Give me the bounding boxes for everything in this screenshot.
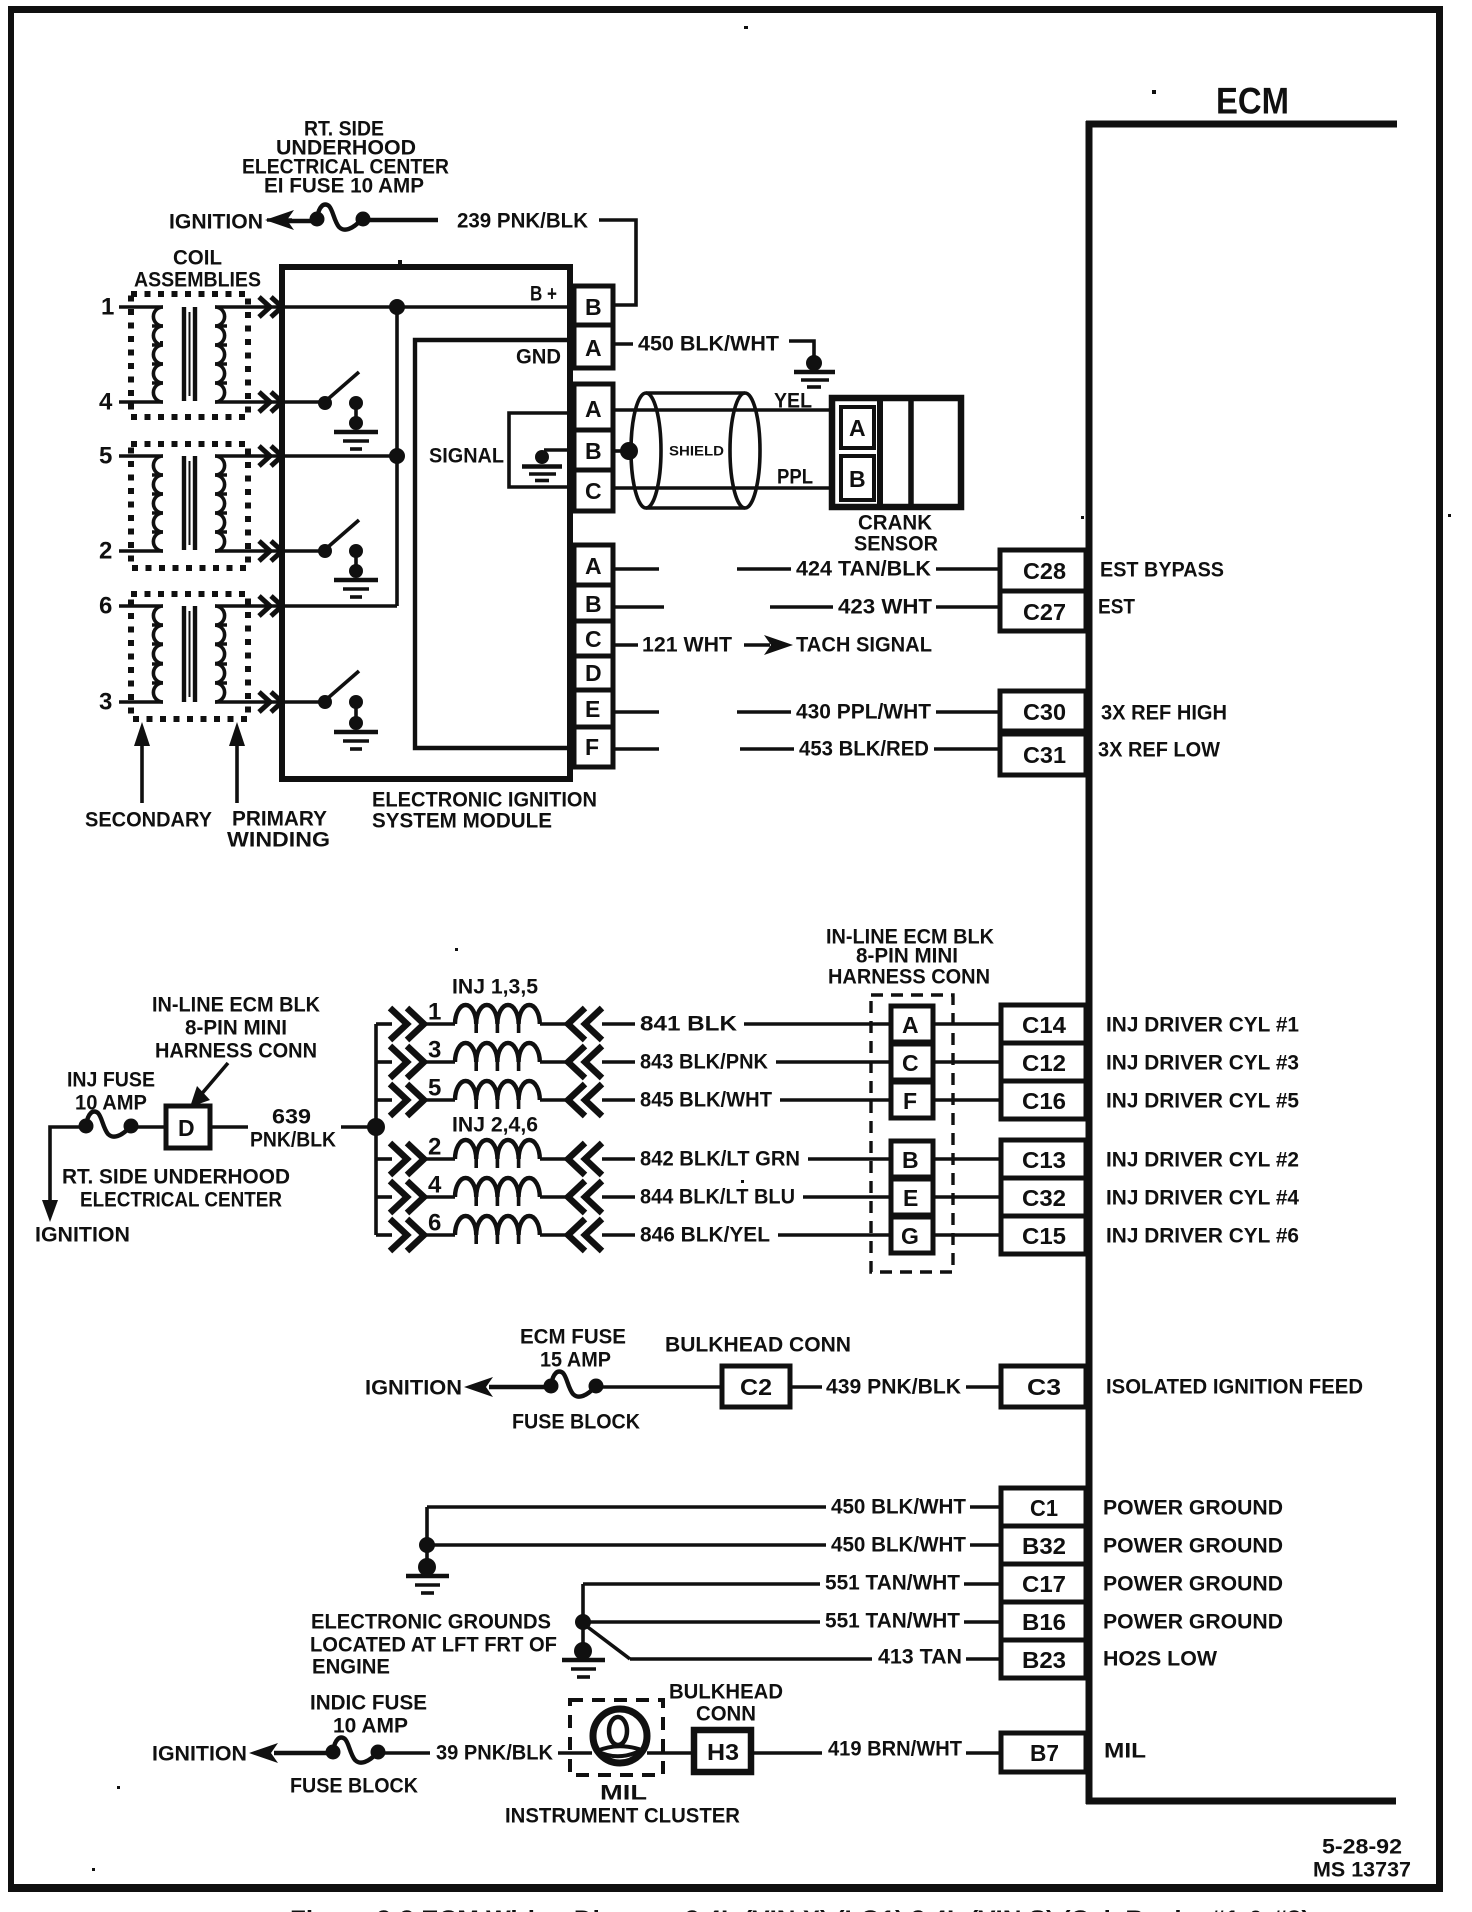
coil assembly 5-2 dotted box — [131, 444, 248, 568]
svg-text:MIL: MIL — [600, 1782, 647, 1805]
svg-text:B: B — [585, 294, 602, 320]
transformer T2 (coils 5,2) — [152, 456, 284, 551]
svg-text:439 PNK/BLK: 439 PNK/BLK — [826, 1376, 961, 1399]
pin C12 — [1001, 1043, 1086, 1081]
chevron into module row 2 — [259, 541, 282, 561]
wire — [288, 219, 318, 223]
svg-text:YEL: YEL — [774, 390, 812, 413]
svg-text:A: A — [585, 396, 602, 422]
chevron into module row 3 — [259, 692, 282, 712]
arrow to IGNITION — [265, 210, 294, 230]
svg-text:HO2S LOW: HO2S LOW — [1103, 1648, 1217, 1671]
wire 439 PNK/BLK — [790, 1376, 1001, 1399]
svg-text:E: E — [903, 1185, 918, 1211]
svg-text:D: D — [178, 1115, 195, 1141]
MIL lamp dashed box — [570, 1700, 663, 1775]
pin C14 — [1001, 1005, 1086, 1043]
svg-text:430 PPL/WHT: 430 PPL/WHT — [796, 701, 931, 724]
svg-text:G: G — [901, 1223, 919, 1249]
svg-text:842 BLK/LT GRN: 842 BLK/LT GRN — [640, 1148, 800, 1171]
junction node row 5 — [389, 448, 405, 464]
pin B32 — [1001, 1526, 1086, 1564]
harness pin G — [891, 1217, 1001, 1253]
svg-text:IGNITION: IGNITION — [365, 1377, 462, 1400]
fuse INDIC FUSE 10 AMP — [274, 1738, 430, 1763]
junction node on B+ — [389, 299, 405, 315]
svg-text:6: 6 — [428, 1210, 441, 1237]
label ELECTRONIC GROUNDS LOCATED AT LFT FRT OF ENGINE — [310, 1611, 557, 1679]
svg-text:E: E — [585, 696, 600, 722]
svg-text:121 WHT: 121 WHT — [642, 634, 732, 657]
svg-text:GND: GND — [516, 346, 561, 369]
svg-text:INJ DRIVER CYL #3: INJ DRIVER CYL #3 — [1106, 1052, 1299, 1075]
pin group B/A top — [574, 286, 613, 368]
coil assembly 1-4 dotted box — [131, 294, 248, 417]
svg-text:HARNESS CONN: HARNESS CONN — [828, 966, 990, 989]
svg-text:B: B — [902, 1147, 919, 1173]
wire 551 TAN/WHT to B16 — [583, 1610, 1001, 1633]
wire 453 BLK/RED (3X REF LOW) — [613, 738, 1001, 761]
arrow to SECONDARY winding — [134, 722, 150, 803]
svg-text:C1: C1 — [1030, 1495, 1058, 1521]
inner ground box — [509, 413, 568, 487]
svg-text:C: C — [902, 1050, 919, 1076]
wire 121 WHT (TACH) — [613, 634, 793, 657]
svg-text:POWER GROUND: POWER GROUND — [1103, 1497, 1283, 1520]
wire 551 TAN/WHT to C17 — [583, 1572, 1001, 1595]
svg-text:A: A — [585, 553, 602, 579]
injector feed bus — [367, 1024, 385, 1235]
svg-text:CONN: CONN — [696, 1703, 756, 1726]
svg-text:C31: C31 — [1023, 742, 1066, 768]
svg-text:C15: C15 — [1022, 1223, 1066, 1249]
svg-text:POWER GROUND: POWER GROUND — [1103, 1573, 1283, 1596]
svg-text:ASSEMBLIES: ASSEMBLIES — [134, 269, 261, 292]
svg-text:C32: C32 — [1022, 1185, 1066, 1211]
svg-text:SECONDARY: SECONDARY — [85, 809, 212, 832]
wire coil 4 — [119, 400, 163, 404]
svg-text:INJ DRIVER CYL #6: INJ DRIVER CYL #6 — [1106, 1225, 1299, 1248]
svg-text:POWER GROUND: POWER GROUND — [1103, 1611, 1283, 1634]
ground G1 (450 BLK/WHT) — [789, 341, 835, 387]
switch Q2 (coil 2 primary) — [284, 520, 378, 597]
connector D — [166, 1106, 210, 1148]
wire elbow to pin B — [599, 220, 636, 305]
label BULKHEAD CONN (MIL) — [669, 1681, 783, 1726]
coil assembly 6-3 dotted box — [131, 594, 248, 719]
svg-text:EI FUSE 10 AMP: EI FUSE 10 AMP — [264, 175, 424, 198]
svg-text:INJ FUSE: INJ FUSE — [67, 1069, 155, 1092]
svg-text:15 AMP: 15 AMP — [540, 1349, 611, 1372]
ground node inside signal box — [522, 450, 572, 481]
svg-text:INJ 1,3,5: INJ 1,3,5 — [452, 976, 538, 999]
svg-text:SYSTEM MODULE: SYSTEM MODULE — [372, 810, 552, 833]
svg-text:A: A — [585, 335, 602, 361]
svg-text:INJ DRIVER CYL #5: INJ DRIVER CYL #5 — [1106, 1090, 1299, 1113]
wire coil 6 — [119, 604, 163, 608]
wire coil 2 — [119, 549, 163, 553]
svg-text:8-PIN MINI: 8-PIN MINI — [185, 1017, 287, 1040]
svg-text:IGNITION: IGNITION — [152, 1743, 247, 1766]
svg-text:ISOLATED IGNITION FEED: ISOLATED IGNITION FEED — [1106, 1376, 1363, 1399]
svg-text:C13: C13 — [1022, 1147, 1066, 1173]
svg-text:6: 6 — [99, 593, 112, 620]
svg-text:INSTRUMENT CLUSTER: INSTRUMENT CLUSTER — [505, 1805, 740, 1828]
arrow from label to connector D — [190, 1063, 228, 1107]
wire 419 BRN/WHT — [751, 1738, 1001, 1761]
svg-text:INJ DRIVER CYL #2: INJ DRIVER CYL #2 — [1106, 1149, 1299, 1172]
connector C2 — [722, 1366, 790, 1407]
injector L1 row (cyl 1) — [376, 999, 891, 1041]
svg-text:551 TAN/WHT: 551 TAN/WHT — [825, 1610, 960, 1633]
svg-text:1: 1 — [101, 294, 114, 321]
svg-text:3: 3 — [428, 1037, 441, 1064]
label MIL INSTRUMENT CLUSTER — [505, 1782, 740, 1828]
wire coil 3 — [119, 700, 163, 704]
wire 430 PPL/WHT (3X REF HIGH) — [613, 701, 1001, 724]
svg-text:841 BLK: 841 BLK — [640, 1013, 737, 1036]
svg-text:2: 2 — [99, 538, 112, 565]
injector L6 row (cyl 6) — [376, 1210, 891, 1252]
switch Q3 (coil 3 primary) — [284, 671, 378, 749]
harness pin C — [891, 1044, 1001, 1080]
svg-text:ELECTRONIC IGNITION: ELECTRONIC IGNITION — [372, 789, 597, 812]
switch Q1 (coil 4 primary) — [284, 372, 378, 449]
svg-text:RT. SIDE UNDERHOOD: RT. SIDE UNDERHOOD — [62, 1166, 290, 1189]
harness connector dashed box — [871, 995, 953, 1272]
svg-text:BULKHEAD CONN: BULKHEAD CONN — [665, 1334, 851, 1357]
transformer T3 (coils 6,3) — [152, 606, 284, 702]
svg-text:IGNITION: IGNITION — [35, 1224, 130, 1247]
injector L4 row (cyl 4) — [376, 1172, 891, 1214]
pin group signal A/B/C — [574, 384, 613, 511]
svg-text:POWER GROUND: POWER GROUND — [1103, 1535, 1283, 1558]
svg-text:D: D — [585, 660, 602, 686]
svg-text:1: 1 — [428, 999, 441, 1026]
svg-text:39 PNK/BLK: 39 PNK/BLK — [436, 1742, 553, 1765]
svg-text:CRANK: CRANK — [858, 512, 932, 535]
pin B23 — [1001, 1640, 1086, 1678]
injector L2 row (cyl 2) — [376, 1134, 891, 1176]
label IN-LINE ECM BLK 8-PIN MINI HARNESS CONN (right) — [826, 926, 994, 989]
arrow to PRIMARY winding — [229, 722, 245, 803]
fuse INJ FUSE — [42, 1112, 166, 1223]
wire 450 BLK/WHT to B32 — [427, 1534, 1001, 1557]
svg-text:B: B — [585, 438, 602, 464]
svg-text:C: C — [585, 478, 602, 504]
arrow to IGNITION — [249, 1743, 278, 1763]
svg-text:844 BLK/LT BLU: 844 BLK/LT BLU — [640, 1186, 795, 1209]
pin C3 — [1001, 1366, 1086, 1407]
pin C1 — [1001, 1488, 1086, 1526]
svg-text:SHIELD: SHIELD — [669, 444, 724, 459]
svg-text:C: C — [585, 626, 602, 652]
svg-text:PNK/BLK: PNK/BLK — [250, 1129, 336, 1152]
label RT. SIDE UNDERHOOD ELECTRICAL CENTER — [62, 1166, 290, 1212]
svg-text:ENGINE: ENGINE — [312, 1656, 390, 1679]
svg-text:SENSOR: SENSOR — [854, 533, 938, 556]
svg-text:4: 4 — [99, 389, 113, 416]
harness pin A — [891, 1006, 1001, 1042]
svg-text:INJ DRIVER CYL #1: INJ DRIVER CYL #1 — [1106, 1014, 1299, 1037]
svg-text:5: 5 — [428, 1075, 441, 1102]
svg-text:EST BYPASS: EST BYPASS — [1100, 559, 1224, 582]
svg-text:450 BLK/WHT: 450 BLK/WHT — [831, 1534, 966, 1557]
inner signal box — [415, 340, 570, 748]
wire 413 TAN to B23 — [630, 1646, 1001, 1669]
label: RT. SIDE UNDERHOOD ELECTRICAL CENTER EI FUSE 10 AMP — [242, 118, 449, 198]
svg-text:639: 639 — [272, 1106, 311, 1129]
svg-text:IGNITION: IGNITION — [169, 211, 263, 234]
pin B7 — [1001, 1733, 1086, 1772]
svg-text:INJ DRIVER CYL #4: INJ DRIVER CYL #4 — [1106, 1187, 1299, 1210]
svg-text:F: F — [903, 1088, 917, 1114]
svg-text:450 BLK/WHT: 450 BLK/WHT — [831, 1496, 966, 1519]
wire 639 PNK/BLK — [210, 1106, 376, 1152]
svg-text:B32: B32 — [1022, 1533, 1066, 1559]
svg-text:IN-LINE ECM BLK: IN-LINE ECM BLK — [152, 994, 320, 1017]
svg-text:C14: C14 — [1022, 1012, 1066, 1038]
svg-text:239 PNK/BLK: 239 PNK/BLK — [457, 210, 588, 233]
svg-text:450 BLK/WHT: 450 BLK/WHT — [638, 333, 779, 356]
label INDIC FUSE 10 AMP — [310, 1692, 427, 1738]
wire coil 1 — [119, 305, 163, 309]
pin group A-F lower — [574, 545, 613, 767]
svg-text:A: A — [849, 415, 866, 441]
wire 423 WHT (EST) — [613, 596, 1001, 619]
wire coil 5 — [119, 454, 163, 458]
injector L5 row (cyl 5) — [376, 1075, 891, 1117]
svg-text:423 WHT: 423 WHT — [838, 596, 932, 619]
internal vertical bus — [395, 307, 399, 606]
svg-text:2: 2 — [428, 1134, 441, 1161]
svg-text:C16: C16 — [1022, 1088, 1066, 1114]
transformer T1 (coils 1,4) — [152, 307, 284, 402]
pin C17 — [1001, 1564, 1086, 1602]
wire row6 to bus — [284, 604, 397, 608]
svg-text:Figure 3-3 ECM Wiring Diagram: Figure 3-3 ECM Wiring Diagram 3.4L (VIN … — [290, 1906, 1310, 1912]
harness pin F — [891, 1082, 1001, 1118]
svg-text:C3: C3 — [1027, 1374, 1061, 1400]
svg-text:10 AMP: 10 AMP — [75, 1092, 147, 1115]
svg-text:B: B — [585, 591, 602, 617]
pin C15 — [1001, 1216, 1086, 1254]
svg-text:B23: B23 — [1022, 1647, 1066, 1673]
chevron into module row 1 — [259, 297, 282, 317]
internal wire B+ bus — [284, 305, 574, 309]
wire 424 TAN/BLK (EST BYPASS) — [613, 558, 1001, 581]
svg-text:B: B — [849, 466, 866, 492]
svg-text:551 TAN/WHT: 551 TAN/WHT — [825, 1572, 960, 1595]
svg-text:5: 5 — [99, 443, 112, 470]
date note 5-28-92 MS 13737 — [1313, 1836, 1411, 1882]
fuse EI FUSE 10 AMP — [310, 205, 371, 230]
wire YEL — [613, 408, 832, 412]
pin C28 — [1000, 550, 1086, 591]
svg-text:ECM FUSE: ECM FUSE — [520, 1326, 626, 1349]
label COIL ASSEMBLIES — [134, 247, 261, 292]
svg-text:F: F — [585, 734, 599, 760]
svg-text:424 TAN/BLK: 424 TAN/BLK — [796, 558, 931, 581]
svg-text:4: 4 — [428, 1172, 442, 1199]
pin B16 — [1001, 1602, 1086, 1640]
pin C30 — [1000, 691, 1086, 731]
fuse ECM FUSE 15 AMP — [489, 1372, 722, 1397]
svg-text:WINDING: WINDING — [227, 829, 330, 852]
svg-text:SIGNAL: SIGNAL — [429, 445, 504, 468]
pin C32 — [1001, 1178, 1086, 1216]
pin C27 — [1000, 591, 1086, 631]
ground G2 cluster — [406, 1507, 449, 1593]
svg-text:ELECTRONIC GROUNDS: ELECTRONIC GROUNDS — [311, 1611, 551, 1634]
svg-text:ELECTRICAL CENTER: ELECTRICAL CENTER — [80, 1189, 282, 1212]
arrow to IGNITION — [464, 1377, 493, 1397]
shield drain stub + node — [613, 442, 638, 460]
svg-text:B +: B + — [530, 283, 557, 306]
chevron into module row 5 — [259, 446, 282, 466]
svg-text:3: 3 — [99, 689, 112, 716]
svg-text:5-28-92: 5-28-92 — [1322, 1836, 1402, 1859]
svg-text:453 BLK/RED: 453 BLK/RED — [799, 738, 929, 761]
harness pin B — [891, 1141, 1001, 1177]
svg-text:HARNESS CONN: HARNESS CONN — [155, 1040, 317, 1063]
crank sensor connector — [832, 398, 961, 507]
label CRANK SENSOR — [854, 512, 938, 556]
chevron into module row 6 — [259, 596, 282, 616]
svg-text:PPL: PPL — [777, 466, 813, 489]
svg-text:845 BLK/WHT: 845 BLK/WHT — [640, 1089, 772, 1112]
wire 450 BLK/WHT to C1 — [427, 1496, 1001, 1519]
shield cable — [631, 393, 760, 508]
electronic ignition system module box U1 — [282, 267, 570, 779]
ground G3 cluster — [562, 1584, 630, 1677]
pin C31 — [1000, 734, 1086, 775]
svg-text:413 TAN: 413 TAN — [878, 1646, 962, 1669]
wire row5 to bus — [284, 454, 397, 458]
svg-text:843 BLK/PNK: 843 BLK/PNK — [640, 1051, 768, 1074]
svg-text:C28: C28 — [1023, 558, 1066, 584]
injector L3 row (cyl 3) — [376, 1037, 891, 1079]
svg-text:INJ 2,4,6: INJ 2,4,6 — [452, 1114, 538, 1137]
pin C13 — [1001, 1140, 1086, 1178]
svg-text:FUSE BLOCK: FUSE BLOCK — [290, 1775, 418, 1798]
label ELECTRONIC IGNITION SYSTEM MODULE — [372, 789, 597, 833]
svg-text:FUSE BLOCK: FUSE BLOCK — [512, 1411, 640, 1434]
lamp MIL — [593, 1709, 694, 1763]
svg-text:3X REF HIGH: 3X REF HIGH — [1101, 702, 1227, 725]
label ECM FUSE 15 AMP — [520, 1326, 626, 1372]
svg-text:C30: C30 — [1023, 699, 1066, 725]
svg-text:TACH SIGNAL: TACH SIGNAL — [796, 634, 932, 657]
wire 39 PNK/BLK — [436, 1742, 592, 1765]
svg-text:C12: C12 — [1022, 1050, 1066, 1076]
svg-text:LOCATED AT LFT FRT OF: LOCATED AT LFT FRT OF — [310, 1634, 557, 1657]
chevron into module row 4 — [259, 392, 282, 412]
label INJ FUSE 10 AMP — [67, 1069, 155, 1115]
harness pin E — [891, 1179, 1001, 1215]
svg-text:8-PIN MINI: 8-PIN MINI — [856, 945, 958, 968]
ECM module outline — [1086, 121, 1397, 1804]
wire 450 BLK/WHT from pin A — [613, 342, 633, 346]
svg-text:EST: EST — [1098, 596, 1135, 619]
svg-text:C17: C17 — [1022, 1571, 1066, 1597]
svg-text:COIL: COIL — [173, 247, 222, 270]
svg-text:MIL: MIL — [1104, 1740, 1146, 1763]
svg-text:PRIMARY: PRIMARY — [232, 808, 327, 831]
svg-text:INDIC FUSE: INDIC FUSE — [310, 1692, 427, 1715]
wire 239 PNK/BLK — [364, 218, 438, 222]
svg-text:C2: C2 — [740, 1374, 772, 1400]
svg-text:MS 13737: MS 13737 — [1313, 1859, 1411, 1882]
svg-text:419 BRN/WHT: 419 BRN/WHT — [828, 1738, 962, 1761]
svg-text:H3: H3 — [707, 1739, 739, 1765]
svg-text:C27: C27 — [1023, 599, 1066, 625]
svg-text:ECM: ECM — [1216, 81, 1289, 122]
svg-text:846 BLK/YEL: 846 BLK/YEL — [640, 1224, 770, 1247]
svg-text:10 AMP: 10 AMP — [333, 1715, 408, 1738]
label IN-LINE ECM BLK 8-PIN MINI HARNESS CONN (left) — [152, 994, 320, 1063]
svg-text:B7: B7 — [1030, 1740, 1059, 1766]
connector H3 — [694, 1730, 751, 1772]
pin C16 — [1001, 1081, 1086, 1119]
wire PPL — [613, 486, 832, 490]
svg-text:B16: B16 — [1022, 1609, 1066, 1635]
svg-text:BULKHEAD: BULKHEAD — [669, 1681, 783, 1704]
svg-text:3X REF LOW: 3X REF LOW — [1098, 739, 1220, 762]
svg-text:A: A — [902, 1012, 919, 1038]
label PRIMARY WINDING — [227, 808, 330, 852]
